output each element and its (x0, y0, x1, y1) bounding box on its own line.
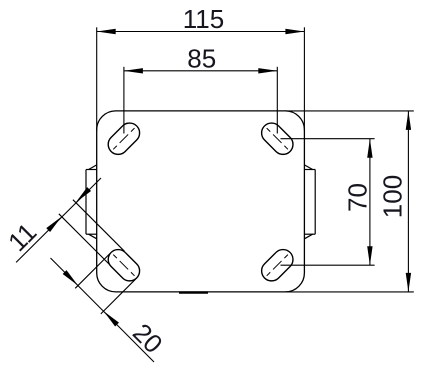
svg-text:115: 115 (183, 4, 224, 34)
svg-text:70: 70 (342, 183, 372, 212)
svg-text:100: 100 (377, 175, 407, 218)
svg-text:85: 85 (187, 44, 216, 74)
